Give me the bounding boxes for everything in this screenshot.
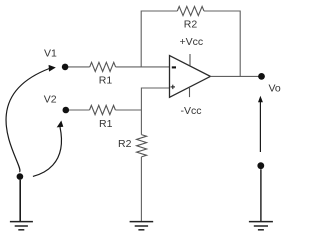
wire R1 lower to junction	[115, 109, 141, 111]
svg-text:V2: V2	[44, 93, 57, 105]
resistor R1 (lower, non-inverting path)	[90, 105, 116, 114]
node (right reference dot below Vo)	[257, 162, 264, 169]
svg-text:+Vcc: +Vcc	[180, 36, 204, 48]
node Vo (output terminal dot)	[258, 73, 265, 80]
op-amp U1	[170, 56, 211, 98]
svg-text:R1: R1	[99, 75, 113, 87]
power pin +Vcc stub	[189, 54, 191, 65]
arrow V1 source (curved annotation arrow)	[6, 65, 56, 172]
resistor R2 (feedback)	[177, 6, 204, 15]
op-amp inverting pin mark -	[172, 66, 176, 68]
wire right node to ground	[260, 169, 262, 221]
wire left node to ground	[19, 180, 21, 222]
wire op-amp output to Vo node	[210, 75, 261, 77]
op-amp non-inverting pin mark +	[171, 85, 175, 89]
arrow Vo (vertical annotation arrow)	[258, 96, 263, 152]
wire R1 to inverting input	[116, 66, 170, 68]
node (left source reference dot)	[17, 173, 24, 180]
arrow V2 source (curved annotation arrow)	[33, 121, 63, 177]
wire feedback loop (inverting node to output)	[141, 11, 240, 76]
power pin -Vcc stub	[189, 88, 191, 97]
svg-text:-Vcc: -Vcc	[181, 105, 202, 117]
wire V2 node to resistor R1 lower	[65, 109, 90, 111]
resistor R1 (upper, inverting path)	[90, 62, 116, 71]
wire R2 to ground	[140, 157, 142, 222]
ground (center)	[130, 222, 154, 230]
node V2 (input terminal dot)	[63, 107, 70, 114]
svg-text:R2: R2	[184, 19, 198, 31]
wire junction down to resistor R2 (grounding)	[140, 110, 142, 135]
svg-text:R1: R1	[99, 118, 113, 130]
ground (right)	[249, 222, 273, 230]
resistor R2 (grounding, vertical)	[137, 135, 147, 157]
wire V1 node to resistor R1	[65, 66, 90, 68]
wire junction to non-inverting input	[141, 88, 169, 110]
ground (left)	[10, 222, 33, 230]
svg-text:R2: R2	[118, 138, 132, 150]
svg-text:Vo: Vo	[269, 83, 281, 95]
svg-text:V1: V1	[44, 47, 57, 59]
node V1 (input terminal dot)	[62, 64, 69, 71]
